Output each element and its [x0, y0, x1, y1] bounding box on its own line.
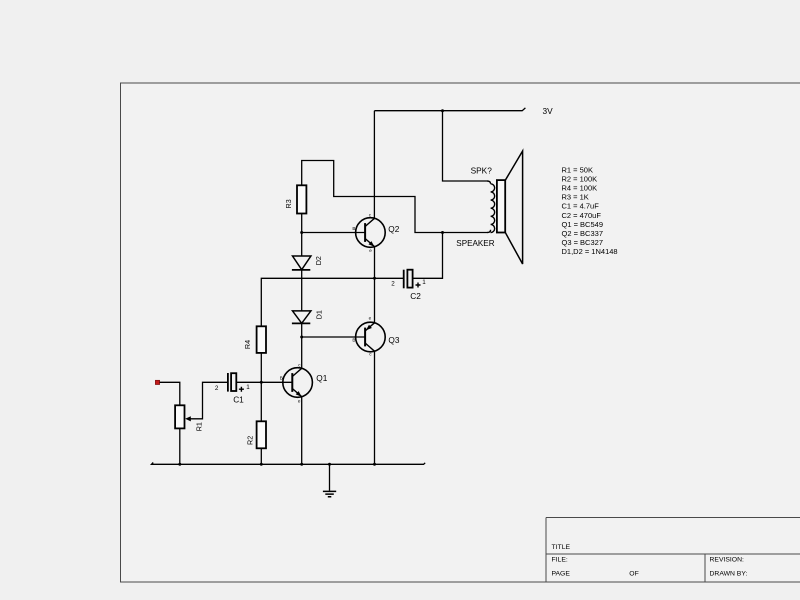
potentiometer R1: [175, 405, 184, 428]
capacitor C2: [404, 270, 413, 289]
transistor Q2: [356, 218, 386, 248]
svg-text:3V: 3V: [543, 106, 554, 116]
svg-text:e: e: [298, 398, 301, 403]
diode D2: [292, 256, 311, 270]
svg-text:e: e: [369, 316, 372, 321]
svg-text:SPEAKER: SPEAKER: [456, 239, 494, 248]
svg-text:R1 = 50K: R1 = 50K: [562, 166, 593, 175]
svg-text:Q1 = BC549: Q1 = BC549: [562, 220, 603, 229]
junction Q1 emitter ground: [300, 463, 303, 466]
wire 3V rail: [374, 108, 525, 111]
junction Q3 collector ground: [373, 463, 376, 466]
Q2 pin labels: [352, 213, 372, 253]
junction R2 ground: [260, 463, 263, 466]
svg-text:Q3: Q3: [388, 335, 399, 345]
title block: [546, 518, 800, 583]
wire 3V rail to speaker top: [443, 111, 488, 181]
wire C1 to Q1 base: [237, 381, 293, 383]
svg-text:2: 2: [391, 281, 395, 288]
svg-text:Q3 = BC327: Q3 = BC327: [562, 238, 603, 247]
wire ground rail: [152, 463, 426, 465]
resistor R3: [297, 185, 306, 213]
svg-text:R3 = 1K: R3 = 1K: [562, 193, 589, 202]
C1 plus sign: [239, 387, 244, 392]
junction Q2 base / R3-D2: [300, 231, 303, 234]
wire R1 bottom to ground rail: [179, 428, 181, 464]
junction output node emitters: [373, 277, 376, 280]
wire D2 cathode to D1 anode: [301, 270, 303, 311]
wire to ground symbol: [329, 464, 331, 490]
svg-text:R3: R3: [284, 199, 293, 208]
svg-text:2: 2: [215, 385, 219, 392]
input terminal: [155, 380, 159, 384]
title block labels: [552, 544, 748, 578]
svg-text:R4: R4: [243, 340, 252, 349]
speaker SPK?: [487, 151, 523, 264]
wire Q3 collector to ground rail: [374, 351, 376, 464]
wire speaker bottom: [443, 232, 488, 234]
ground: [323, 491, 336, 496]
svg-text:C1 = 4.7uF: C1 = 4.7uF: [562, 202, 600, 211]
svg-text:B: B: [352, 338, 355, 343]
wire R1 wiper to C1: [187, 382, 228, 419]
wire Q2 emitter to output: [374, 247, 376, 279]
svg-text:C1: C1: [233, 395, 244, 405]
wire D1 cathode to Q1 collector: [301, 324, 303, 369]
svg-text:DRAWN BY:: DRAWN BY:: [710, 571, 748, 578]
wire R3 bottom to D2 anode: [301, 214, 303, 256]
svg-text:D2: D2: [314, 256, 323, 265]
svg-text:Q1: Q1: [316, 373, 327, 383]
svg-text:REVISION:: REVISION:: [710, 557, 744, 564]
wire Q3 emitter to output: [374, 278, 376, 323]
svg-text:1: 1: [422, 279, 426, 286]
svg-text:FILE:: FILE:: [552, 557, 568, 564]
wire C2 branch: [413, 233, 443, 279]
svg-text:D1,D2 = 1N4148: D1,D2 = 1N4148: [562, 247, 618, 256]
svg-text:Q2 = BC337: Q2 = BC337: [562, 229, 603, 238]
svg-text:R2 = 100K: R2 = 100K: [562, 175, 598, 184]
junction ground symbol branch: [328, 463, 331, 466]
wire Q1 emitter to ground rail: [301, 397, 303, 465]
wire Q3 base: [302, 336, 365, 338]
wire 3V rail to Q2 collector: [373, 111, 375, 219]
transistor Q1: [283, 368, 313, 398]
Q3 pin labels: [352, 316, 372, 357]
transistor Q3: [356, 322, 386, 352]
junction R1 ground: [178, 463, 181, 466]
svg-text:1: 1: [246, 384, 250, 391]
wire Q2 base: [302, 232, 365, 234]
svg-text:SPK?: SPK?: [471, 165, 493, 175]
svg-text:Q2: Q2: [388, 224, 399, 234]
resistor R4: [257, 326, 266, 353]
svg-text:C2 = 470uF: C2 = 470uF: [562, 211, 602, 220]
svg-text:C2: C2: [410, 291, 421, 301]
junction Q1 base node: [260, 381, 263, 384]
wire R3 top bootstrap path: [302, 161, 443, 233]
junction on 3V rail: [441, 109, 444, 112]
svg-text:PAGE: PAGE: [552, 570, 571, 577]
svg-text:TITLE: TITLE: [552, 544, 571, 551]
svg-text:e: e: [369, 248, 372, 253]
wire R2 bottom to ground rail: [260, 448, 262, 464]
svg-text:R4 = 100K: R4 = 100K: [562, 184, 598, 193]
wire input to R1 top: [160, 382, 180, 405]
wire output node to R4: [261, 278, 403, 326]
svg-text:R2: R2: [246, 436, 255, 445]
resistor R2: [257, 421, 266, 448]
svg-text:B: B: [352, 226, 355, 231]
svg-text:OF: OF: [629, 570, 638, 577]
svg-text:R1: R1: [194, 422, 203, 431]
junction speaker bottom / C2 branch: [441, 231, 444, 234]
diode D1: [292, 311, 311, 324]
parts list: [562, 166, 618, 256]
drawing sheet: [121, 83, 800, 582]
svg-text:D1: D1: [315, 310, 324, 319]
junction Q3 base node: [300, 336, 303, 339]
wire R4 bottom to R2 top: [260, 353, 262, 421]
Q1 pin labels: [280, 362, 302, 403]
R1 wiper arrowhead: [185, 416, 191, 421]
capacitor C1: [228, 373, 236, 392]
svg-text:B: B: [280, 376, 283, 381]
C2 plus sign: [416, 283, 421, 288]
